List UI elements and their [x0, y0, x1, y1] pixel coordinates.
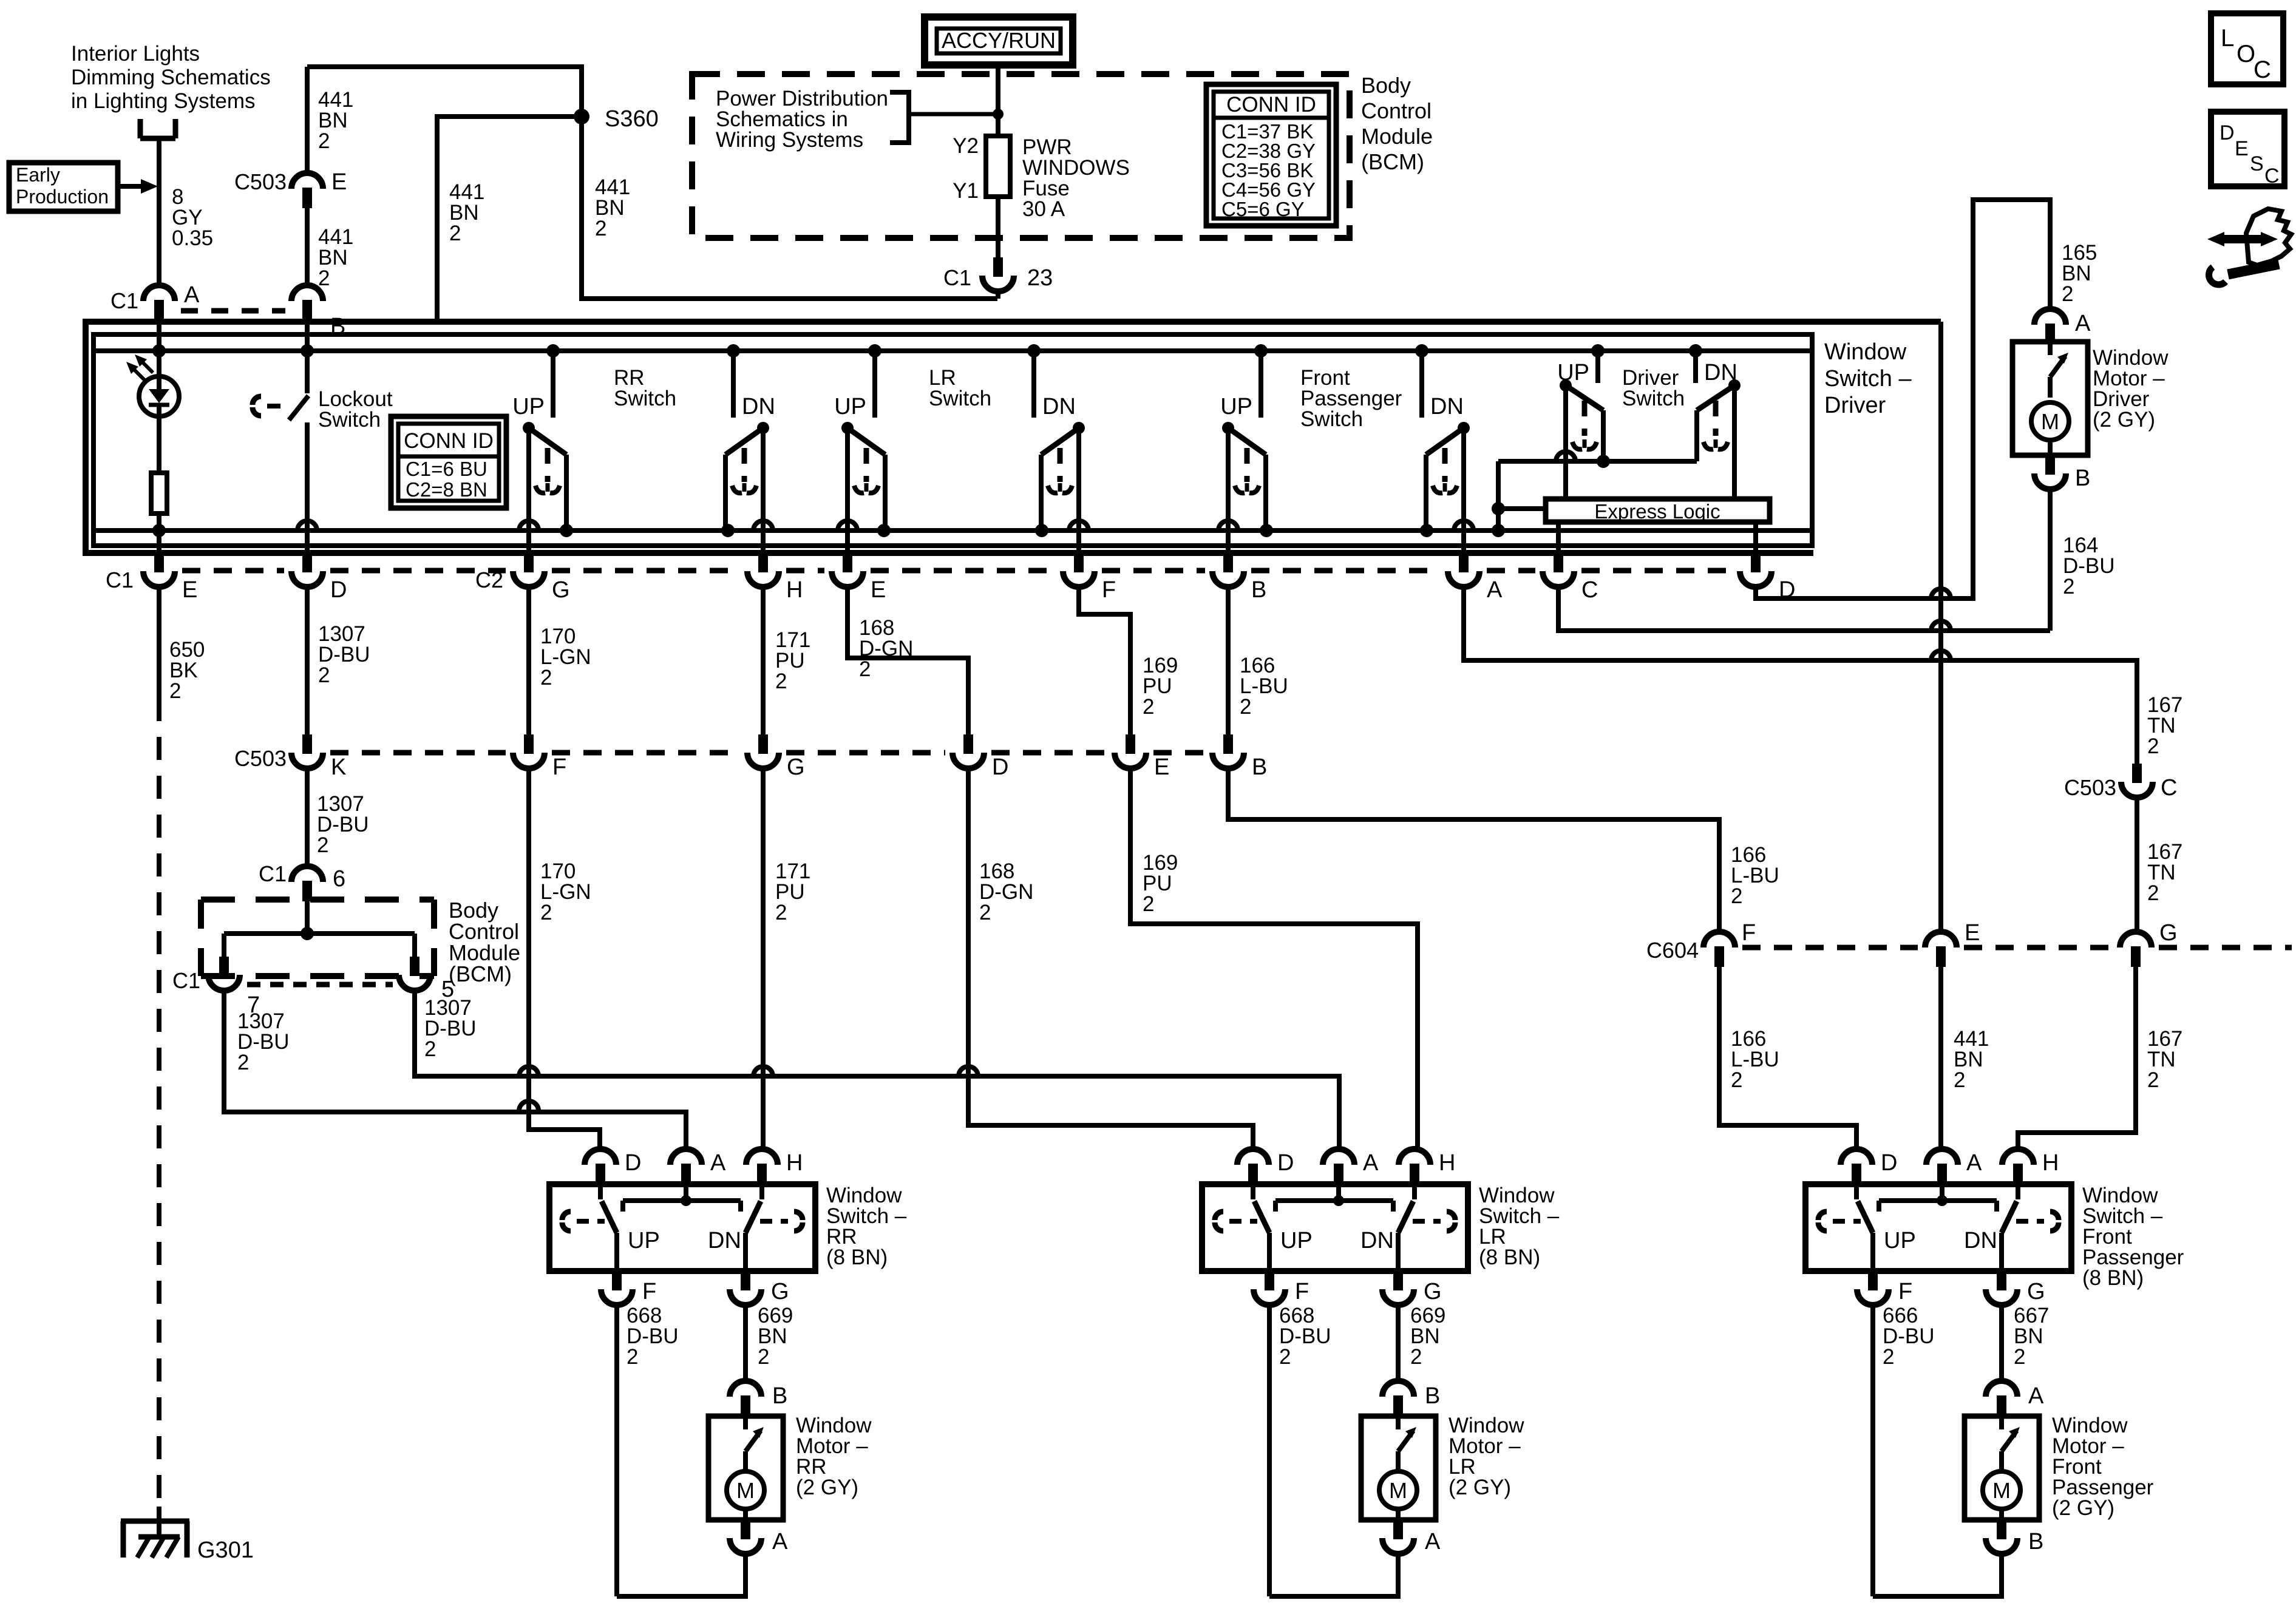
svg-text:UP: UP	[628, 1228, 660, 1253]
svg-text:CONN ID: CONN ID	[404, 429, 494, 453]
svg-text:F: F	[642, 1279, 656, 1304]
wire 164 D-BU 2 C to driver motor B	[1558, 534, 2115, 631]
connector window switch pin D (RR)	[585, 1149, 641, 1184]
svg-text:CONN ID: CONN ID	[1226, 93, 1316, 117]
svg-text:2: 2	[1143, 892, 1154, 916]
svg-text:DN: DN	[1430, 394, 1464, 419]
svg-text:(2 GY): (2 GY)	[1449, 1476, 1511, 1499]
wire fuse to C1 23	[996, 197, 1000, 257]
note window motor label (RR)	[796, 1414, 872, 1499]
wire express logic pin D	[1753, 522, 1758, 553]
connector C503 pin B	[1212, 734, 1267, 780]
junction lower bus x=1716	[1035, 524, 1048, 537]
note Power Distribution Schematics in Wiring Systems	[716, 87, 888, 152]
connector C1/C2 pin B (x=2023)	[1212, 553, 1266, 603]
svg-text:2: 2	[2147, 881, 2159, 905]
switch driver DN	[1696, 351, 1741, 499]
svg-text:K: K	[331, 754, 346, 780]
svg-text:2: 2	[2063, 575, 2074, 598]
svg-text:C503: C503	[2064, 775, 2116, 800]
connector C1/C2 pin C (x=2567)	[1543, 553, 1598, 603]
CONN ID table (driver switch)	[391, 416, 506, 508]
svg-text:UP: UP	[512, 394, 545, 419]
connector window switch pin H (FP)	[2002, 1149, 2059, 1184]
svg-text:C1: C1	[172, 968, 200, 993]
wire 170 L-GN 2 G to C503 F	[529, 587, 591, 734]
early production arrow	[118, 179, 158, 194]
wire 650 BK 2 to ground (solid part)	[159, 587, 205, 703]
svg-text:F: F	[1295, 1279, 1309, 1304]
wire motor return loop (LR)	[1269, 1554, 1398, 1596]
svg-text:H: H	[2042, 1150, 2059, 1176]
svg-text:F: F	[1102, 577, 1116, 603]
junction upper bus x=1441	[868, 344, 881, 358]
svg-text:C5=6 GY: C5=6 GY	[1221, 198, 1305, 220]
wire 441 BN 2 C604 E to FP switch A	[1941, 966, 1989, 1149]
wire 666 D-BU 2 F down (FP)	[1873, 1304, 1935, 1596]
wire 650 BK 2 dashed early production run	[157, 698, 161, 1507]
svg-text:2: 2	[1410, 1345, 1422, 1369]
connector C503 pin E	[234, 169, 347, 208]
svg-text:Window: Window	[1824, 339, 1907, 365]
note Window Motor - Driver (2 GY)	[2093, 346, 2169, 432]
wire 669 BN 2 G to motor (LR)	[1398, 1304, 1445, 1381]
wire 167 TN 2 C604 G to FP switch H	[2018, 966, 2182, 1149]
svg-text:UP: UP	[1280, 1228, 1313, 1253]
connector motor pin B (RR)	[730, 1381, 787, 1416]
svg-text:(2 GY): (2 GY)	[796, 1476, 858, 1499]
svg-text:B: B	[2075, 466, 2090, 491]
svg-text:L: L	[2221, 25, 2234, 52]
svg-text:F: F	[1742, 920, 1756, 946]
connector C1/C2 pin H (x=1257)	[747, 553, 803, 603]
svg-text:DN: DN	[1360, 1228, 1394, 1253]
connector C1/C2 pin E (x=262)	[106, 553, 197, 603]
wire 167 TN 2 C503 C to C604 G	[2137, 798, 2182, 932]
svg-text:Express Logic: Express Logic	[1594, 500, 1720, 523]
svg-text:Switch: Switch	[614, 387, 676, 410]
svg-text:E: E	[331, 169, 347, 195]
svg-text:A: A	[2028, 1383, 2044, 1409]
hand with arrow and wrench icon	[2207, 209, 2291, 285]
connector window switch pin D (LR)	[1237, 1149, 1294, 1184]
svg-text:Switch: Switch	[1300, 407, 1363, 431]
svg-text:A: A	[710, 1150, 726, 1176]
svg-text:2: 2	[859, 657, 871, 681]
svg-text:D: D	[1881, 1150, 1897, 1176]
svg-text:2: 2	[595, 217, 606, 240]
connector window switch pin G (LR)	[1382, 1271, 1442, 1305]
svg-text:C503: C503	[234, 746, 287, 771]
junction upper bus x=1208	[727, 344, 740, 358]
svg-text:30 A: 30 A	[1022, 197, 1065, 221]
wire 166 L-BU 2 B to C503 B	[1228, 587, 1288, 734]
junction lower bus x=262	[152, 524, 166, 537]
svg-text:F: F	[1898, 1279, 1912, 1304]
svg-text:E: E	[182, 577, 197, 603]
svg-text:DN: DN	[1042, 394, 1076, 419]
switch FP DN	[1422, 351, 1473, 553]
svg-text:2: 2	[449, 222, 461, 245]
connector motor pin A (LR)	[1382, 1520, 1441, 1554]
connector window switch pin A (RR)	[670, 1149, 726, 1184]
svg-text:in Lighting Systems: in Lighting Systems	[71, 89, 255, 113]
switch driver UP	[1557, 351, 1610, 499]
switch LR DN	[1034, 351, 1089, 553]
svg-text:(BCM): (BCM)	[449, 961, 512, 986]
dashed connector line C1/C2 row	[182, 568, 1733, 574]
connector C1 pin 5 (BCM)	[399, 957, 454, 1002]
svg-text:E: E	[1154, 754, 1169, 780]
svg-text:D: D	[330, 577, 347, 603]
junction upper bus x=2342	[1415, 344, 1428, 358]
wire driver switch common to express logic	[1492, 452, 1697, 531]
connector C604 pin G	[2120, 920, 2178, 967]
note window switch label (RR)	[826, 1184, 907, 1269]
svg-text:(8 BN): (8 BN)	[1479, 1246, 1540, 1269]
Early Production callout box	[9, 163, 118, 211]
svg-text:2: 2	[317, 833, 328, 857]
wire B into switch box	[305, 301, 310, 351]
svg-text:A: A	[772, 1529, 788, 1554]
LED illumination lamp	[126, 351, 179, 416]
motor M (LR)	[1379, 1416, 1417, 1520]
wire C1 23 down to return	[996, 291, 1000, 299]
dashed C503 connector line	[330, 750, 1205, 756]
wire 168 D-GN 2 C503 D to LR switch D	[959, 768, 1253, 1149]
note Window Switch - Driver	[1824, 339, 1912, 418]
svg-text:2: 2	[775, 670, 787, 693]
svg-text:2: 2	[540, 901, 552, 924]
wire 441 BN 2 from S360 to C503 E	[307, 67, 582, 173]
note RR Switch	[614, 366, 676, 410]
wire motor return loop (RR)	[617, 1554, 746, 1596]
note window switch label (LR)	[1479, 1184, 1560, 1269]
svg-text:M: M	[1992, 1478, 2011, 1503]
connector motor pin B (FP)	[1986, 1520, 2043, 1554]
wire express logic pin C	[1556, 522, 1561, 553]
junction upper bus x=2632	[1591, 344, 1605, 358]
lockout switch	[253, 351, 393, 553]
wire 667 BN 2 G to motor (FP)	[2002, 1304, 2049, 1381]
connector C1/C2 pin F (x=1777)	[1063, 553, 1116, 603]
wire 1307 D-BU 2 from BCM 5 to LR switch A	[415, 991, 1339, 1149]
wire 1307 D-BU 2 D to C503 K	[307, 587, 370, 857]
connector C1 pin 7 (BCM)	[172, 957, 260, 1018]
wire 169 PU 2 F to C503 E	[1079, 587, 1178, 734]
note Body Control Module (BCM)	[449, 898, 520, 986]
junction upper bus x=506	[301, 344, 314, 358]
window switch internals (FP)	[1818, 1184, 2059, 1271]
svg-text:Wiring Systems: Wiring Systems	[716, 128, 863, 152]
svg-text:G: G	[787, 754, 805, 780]
svg-text:C503: C503	[234, 169, 287, 194]
svg-text:D: D	[2220, 121, 2235, 144]
wire 167 TN 2 A to C503 C	[1464, 587, 2182, 764]
svg-text:G: G	[1424, 1279, 1442, 1304]
connector motor pin A (RR)	[730, 1520, 788, 1554]
svg-text:C1=6 BU: C1=6 BU	[406, 458, 487, 480]
svg-text:C: C	[2264, 164, 2280, 188]
motor M (FP)	[1983, 1416, 2020, 1520]
connector C1/C2 pin G (x=871)	[475, 553, 570, 603]
svg-text:C: C	[2254, 56, 2271, 83]
body control module dashed box	[201, 900, 434, 976]
svg-text:C: C	[1581, 577, 1598, 603]
svg-text:Driver: Driver	[1824, 393, 1886, 418]
switch RR UP	[512, 351, 566, 553]
wire 169 PU 2 C503 E to LR switch H	[1130, 768, 1418, 1149]
svg-text:2: 2	[1954, 1068, 1965, 1092]
junction lower bus x=1456	[877, 524, 891, 537]
dashed connector line BCM C1 pins	[247, 982, 393, 988]
svg-text:Early: Early	[16, 164, 60, 186]
svg-text:Module: Module	[1361, 124, 1433, 149]
window motor driver box	[2012, 342, 2088, 455]
svg-text:2: 2	[318, 663, 330, 687]
connector C1 pin B	[291, 285, 345, 339]
svg-text:C1: C1	[259, 861, 287, 886]
connector C604 pin F	[1646, 920, 1756, 967]
svg-text:2: 2	[169, 679, 181, 703]
svg-text:Y2: Y2	[953, 134, 979, 158]
wire 441 BN 2 S360 to window switch feed	[437, 117, 582, 322]
connector C1/C2 pin E (x=1396)	[832, 553, 886, 603]
wire 669 BN 2 G to motor (RR)	[746, 1304, 793, 1381]
svg-text:0.35: 0.35	[172, 226, 213, 250]
connector window switch pin G (FP)	[1986, 1271, 2045, 1305]
connector C1/C2 pin D (x=2892)	[1740, 553, 1795, 603]
svg-text:2: 2	[237, 1051, 249, 1074]
svg-text:(2 GY): (2 GY)	[2052, 1496, 2114, 1520]
fuse PWR WINDOWS 30 A	[953, 134, 1130, 221]
svg-text:O: O	[2237, 41, 2255, 67]
ground G301	[121, 1507, 254, 1563]
DESC icon box	[2211, 112, 2284, 188]
connector C503 pin E (lower)	[1115, 734, 1169, 780]
svg-text:Switch: Switch	[1622, 387, 1685, 410]
dashed C604 connector line	[1742, 945, 2292, 951]
junction upper bus x=2077	[1254, 344, 1268, 358]
svg-text:2: 2	[318, 129, 330, 153]
resistor (LED dropping)	[151, 416, 167, 553]
svg-text:H: H	[786, 1150, 803, 1176]
svg-text:2: 2	[2062, 282, 2073, 306]
svg-text:(8 BN): (8 BN)	[826, 1246, 888, 1269]
svg-text:2: 2	[318, 266, 330, 290]
wire 166 L-BU 2 C503 B to C604 F	[1228, 768, 1779, 932]
svg-text:Switch –: Switch –	[1824, 366, 1912, 392]
wire 171 PU 2 C503 G to RR switch H	[753, 768, 810, 1149]
svg-text:(BCM): (BCM)	[1361, 149, 1424, 174]
wire 1307 D-BU 2 C503 K to BCM C1 6	[305, 768, 310, 866]
svg-text:C604: C604	[1646, 938, 1699, 963]
junction upper bus x=262	[152, 344, 166, 358]
svg-text:B: B	[1425, 1383, 1440, 1409]
connector C1 pin 6 (BCM)	[259, 861, 345, 901]
wire 166 L-BU 2 C604 F to FP switch D	[1719, 966, 1856, 1149]
junction lower bus x=1199	[721, 524, 735, 537]
svg-text:G: G	[2027, 1279, 2045, 1304]
connector C503 pin K	[234, 734, 346, 780]
svg-text:2: 2	[627, 1345, 638, 1369]
svg-text:B: B	[772, 1383, 787, 1409]
svg-text:E: E	[1965, 920, 1980, 946]
power distribution dashed box	[692, 74, 1350, 238]
svg-text:H: H	[786, 577, 803, 603]
junction upper bus x=2793	[1689, 344, 1702, 358]
svg-text:E: E	[871, 577, 886, 603]
svg-text:(2 GY): (2 GY)	[2093, 408, 2155, 432]
svg-text:ACCY/RUN: ACCY/RUN	[942, 28, 1056, 53]
window switch internals (LR)	[1215, 1184, 1455, 1271]
connector C503 pin F	[513, 734, 566, 780]
LOC icon box	[2211, 13, 2283, 84]
svg-text:2: 2	[424, 1037, 436, 1061]
svg-text:C1: C1	[110, 288, 138, 313]
connector C1/C2 pin D (x=506)	[291, 553, 347, 603]
svg-text:2: 2	[775, 901, 787, 924]
junction at fuse top	[993, 109, 1004, 120]
svg-text:2: 2	[1143, 695, 1154, 719]
svg-text:2: 2	[2147, 1068, 2159, 1092]
svg-text:A: A	[184, 282, 200, 308]
switch FP UP	[1218, 351, 1266, 553]
svg-text:C: C	[2161, 775, 2177, 801]
svg-text:D: D	[625, 1150, 641, 1176]
svg-text:B: B	[2028, 1529, 2043, 1554]
wire 8 GY 0.35 from interior lights to C1 A	[159, 138, 213, 285]
ACCY/RUN power flag box	[925, 17, 1073, 65]
window switch internals (RR)	[562, 1184, 803, 1271]
note LR Switch	[929, 366, 991, 410]
connector C503 pin G	[747, 734, 805, 780]
motor M (RR)	[727, 1416, 764, 1520]
svg-text:2: 2	[758, 1345, 769, 1369]
connector motor pin A (FP)	[1986, 1381, 2044, 1416]
connector driver motor pin A	[2034, 309, 2091, 344]
note window switch label (FP)	[2082, 1184, 2184, 1290]
svg-text:M: M	[1389, 1478, 1407, 1503]
express logic box	[1546, 499, 1770, 523]
svg-text:Control: Control	[1361, 98, 1432, 123]
note Interior Lights Dimming Schematics reference	[71, 42, 271, 113]
connector C503 pin C	[2064, 764, 2178, 801]
svg-text:A: A	[2075, 311, 2091, 336]
svg-text:G301: G301	[197, 1537, 254, 1563]
junction upper bus x=911	[546, 344, 560, 358]
svg-text:A: A	[1425, 1529, 1441, 1554]
wire 170 L-GN 2 C503 F to RR switch D	[519, 768, 600, 1149]
svg-text:C2=8 BN: C2=8 BN	[406, 478, 487, 501]
connector window switch pin H (RR)	[746, 1149, 803, 1184]
wire 165 BN 2 D to driver motor A	[1756, 200, 2097, 598]
window switch driver inner box	[93, 334, 1812, 546]
svg-text:Switch: Switch	[318, 408, 381, 432]
wire 168 D-GN 2 E to C503 D	[847, 587, 968, 734]
connector window switch pin F (LR)	[1254, 1271, 1309, 1305]
svg-text:G: G	[771, 1279, 789, 1304]
junction lower bus x=2086	[1260, 524, 1273, 537]
connector window switch pin H (LR)	[1399, 1149, 1455, 1184]
svg-text:E: E	[2235, 137, 2249, 160]
wire 171 PU 2 H to C503 G	[763, 587, 810, 734]
wire A into switch box	[157, 301, 161, 351]
window switch driver outer box	[86, 322, 1941, 553]
svg-text:UP: UP	[1884, 1228, 1916, 1253]
svg-text:C1: C1	[943, 265, 971, 290]
svg-text:2: 2	[1279, 1345, 1291, 1369]
lower common bus in driver switch	[93, 528, 1812, 533]
dashed link C1 A to B	[181, 308, 285, 314]
svg-text:S: S	[2250, 152, 2264, 175]
svg-text:G: G	[2159, 920, 2178, 946]
svg-text:F: F	[552, 754, 566, 780]
wire 441 BN 2 S360 down to fuse return	[582, 117, 997, 299]
connector C1/C2 pin A (x=2411)	[1448, 553, 1503, 603]
svg-text:Switch: Switch	[929, 387, 991, 410]
svg-text:B: B	[1251, 577, 1266, 603]
window switch box (LR)	[1202, 1184, 1468, 1271]
note window motor label (FP)	[2052, 1414, 2154, 1520]
junction upper bus x=1703	[1027, 344, 1041, 358]
connector window switch pin D (FP)	[1841, 1149, 1897, 1184]
svg-text:C2: C2	[475, 568, 503, 592]
window motor box (LR)	[1361, 1416, 1436, 1520]
svg-text:DN: DN	[708, 1228, 741, 1253]
svg-text:6: 6	[333, 866, 345, 892]
switch LR UP	[834, 351, 885, 553]
svg-text:A: A	[1487, 577, 1503, 603]
svg-text:Production: Production	[16, 186, 109, 208]
upper supply bus in driver switch	[93, 348, 1812, 353]
window switch box (RR)	[549, 1184, 815, 1271]
note Driver Switch	[1622, 366, 1685, 410]
wire 441 BN 2 C503 E to C1 B	[307, 207, 353, 290]
svg-text:Y1: Y1	[953, 179, 979, 203]
svg-text:A: A	[1363, 1150, 1379, 1176]
off-page connector bracket (interior lights feed)	[140, 119, 175, 138]
svg-text:M: M	[736, 1478, 755, 1503]
svg-text:D: D	[992, 754, 1008, 780]
svg-text:2: 2	[2014, 1345, 2025, 1369]
svg-text:2: 2	[979, 901, 991, 924]
svg-text:Interior Lights: Interior Lights	[71, 42, 200, 66]
svg-text:D: D	[1277, 1150, 1294, 1176]
connector driver motor pin B	[2034, 455, 2090, 491]
connector window switch pin F (RR)	[601, 1271, 656, 1305]
connector window switch pin F (FP)	[1857, 1271, 1912, 1305]
svg-text:2: 2	[1731, 884, 1742, 908]
svg-text:Body: Body	[1361, 73, 1411, 98]
wire 1307 D-BU 2 from BCM 7 to RR switch A	[224, 991, 686, 1149]
note Front Passenger Switch	[1300, 366, 1402, 431]
svg-text:S360: S360	[605, 106, 659, 132]
wire 668 D-BU 2 F down (LR)	[1269, 1304, 1331, 1596]
svg-text:2: 2	[1240, 695, 1251, 719]
wire long 441 feed / right edge down to C604 E	[1938, 322, 1943, 932]
connector C604 pin E	[1925, 920, 1980, 967]
svg-text:2: 2	[1883, 1345, 1894, 1369]
CONN ID table (BCM)	[1206, 84, 1336, 226]
power schematic bracket	[890, 92, 998, 143]
BCM internal dimming driver wires	[224, 900, 415, 957]
svg-text:UP: UP	[834, 394, 866, 419]
note Body Control Module (BCM) top	[1361, 73, 1433, 174]
junction lower bus x=2350	[1420, 524, 1433, 537]
switch RR DN	[725, 351, 775, 553]
connector window switch pin A (FP)	[1926, 1149, 1982, 1184]
